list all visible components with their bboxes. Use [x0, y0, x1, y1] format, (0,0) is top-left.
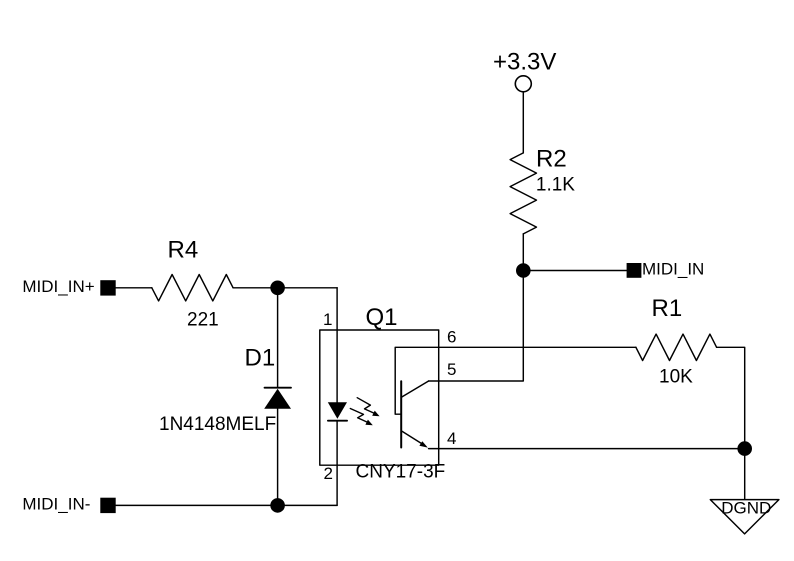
- node D junction dot: [737, 441, 752, 456]
- resistor R2: [510, 153, 536, 234]
- svg-text:1: 1: [323, 310, 332, 329]
- svg-text:R1: R1: [652, 295, 683, 322]
- wire node A to pin 5 (collector): [429, 271, 524, 382]
- svg-text:DGND: DGND: [721, 499, 771, 518]
- light arrow 2: [350, 409, 367, 423]
- wire R1 to node D: [717, 347, 745, 448]
- transistor base wire (pin 6 path): [395, 347, 439, 414]
- svg-text:MIDI_IN: MIDI_IN: [642, 260, 704, 279]
- wire node D to DGND: [744, 449, 746, 500]
- transistor emitter diagonal: [402, 431, 422, 443]
- svg-text:10K: 10K: [659, 367, 693, 388]
- diode D1 triangle: [264, 389, 291, 409]
- wire +3.3V to R2: [522, 92, 524, 153]
- wire MIDI_IN+ to R4: [116, 287, 152, 289]
- svg-text:5: 5: [447, 360, 456, 379]
- port square MIDI_IN+: [100, 280, 115, 295]
- svg-text:MIDI_IN+: MIDI_IN+: [22, 277, 94, 296]
- opto-coupler U box Q1: [320, 330, 439, 465]
- wire pin1 into LED: [336, 288, 338, 403]
- svg-text:CNY17-3F: CNY17-3F: [356, 462, 446, 483]
- port square MIDI_IN: [627, 263, 642, 278]
- wire R2 to node A: [522, 234, 524, 271]
- wire R4 to opto pin 1: [233, 287, 337, 289]
- transistor base bar: [400, 381, 402, 447]
- svg-text:6: 6: [447, 327, 456, 346]
- transistor emitter arrowhead: [419, 441, 427, 447]
- port square MIDI_IN-: [100, 498, 115, 513]
- svg-text:2: 2: [324, 464, 333, 483]
- ground DGND triangle: [710, 500, 779, 534]
- wire MIDI_IN- to opto pin 2: [116, 504, 337, 506]
- wire node B to D1: [277, 288, 279, 388]
- LED triangle: [328, 402, 347, 419]
- diode D1 cathode bar: [265, 387, 292, 389]
- svg-text:R2: R2: [536, 146, 567, 173]
- wire pin 4 to node D: [429, 448, 745, 450]
- svg-text:1N4148MELF: 1N4148MELF: [159, 414, 276, 435]
- light arrow 1: [357, 398, 374, 414]
- svg-text:1.1K: 1.1K: [536, 175, 575, 196]
- svg-text:Q1: Q1: [366, 304, 398, 331]
- wire pin 6 to R1: [439, 346, 636, 348]
- svg-text:R4: R4: [168, 237, 199, 264]
- resistor R4: [152, 275, 233, 301]
- svg-text:221: 221: [187, 310, 219, 331]
- wire LED to pin2: [336, 421, 338, 506]
- power +3.3V circle: [515, 76, 531, 92]
- resistor R1: [636, 334, 717, 360]
- svg-text:4: 4: [447, 429, 456, 448]
- wire D1 to bottom net: [277, 409, 279, 506]
- svg-text:+3.3V: +3.3V: [493, 48, 556, 75]
- node B junction dot: [270, 281, 285, 296]
- svg-text:MIDI_IN-: MIDI_IN-: [22, 495, 90, 514]
- node C junction dot: [270, 498, 285, 513]
- node A junction dot: [516, 263, 531, 278]
- LED cathode bar: [328, 420, 347, 422]
- svg-text:D1: D1: [245, 345, 276, 372]
- wire node A to MIDI_IN port: [523, 270, 626, 272]
- transistor collector diagonal: [402, 381, 429, 397]
